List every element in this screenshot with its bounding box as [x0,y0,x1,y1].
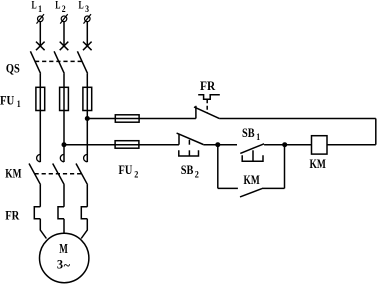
motor 3~ label [57,256,70,272]
SB1 NO contact blade [240,144,264,154]
FR heater element pole 3 [81,207,87,219]
SB2 label [181,163,200,180]
junction node left of SB1 [215,142,220,147]
motor M label [59,241,68,256]
QS blade pole 2 [54,51,64,73]
SB2 NC contact blade [177,133,204,144]
FR heater element pole 1 [34,207,40,219]
wire FU2 upper to FR contact [139,118,196,120]
svg-text:~: ~ [64,258,71,273]
SB1 plunger link [252,150,254,161]
KM main blade pole 2 [53,164,65,185]
svg-text:FR: FR [200,79,216,93]
wire FU2 lower to SB2 [139,144,179,146]
QS fixed contact cross pole 2 [60,42,69,51]
terminal symbol L3 [84,14,92,24]
wire SB1 to junction [264,144,285,146]
QS blade pole 3 [77,51,87,73]
wire aux branch left horizontal [218,187,238,189]
node tap to control bottom line on L2 [62,142,67,147]
svg-text:1: 1 [38,4,42,14]
wire L2 drop to QS [63,22,65,46]
svg-text:FU: FU [119,163,133,177]
KM linkage dashed line [35,173,82,175]
SB2 pushbutton bracket [179,150,199,156]
wire FU1 to KM pole 1 [39,111,41,163]
svg-text:1: 1 [17,99,21,109]
wire QS to FU1 pole 1 [39,74,41,88]
KM main contact arc pole 3 [84,154,88,161]
fuse FU2 upper [115,115,139,122]
KM coil label [310,157,327,171]
FR actuator dashed link [206,99,208,113]
wire FU1 to KM pole 3 [86,111,88,163]
svg-text:1: 1 [256,132,260,142]
wire heater to motor pole 1 [40,219,46,239]
node tap to control top line on L3 [85,116,90,121]
svg-text:2: 2 [62,4,66,14]
node L2 terminal label [55,0,66,14]
svg-text:SB: SB [181,163,194,177]
wire right rail vertical [375,119,377,145]
FR NC contact stub [195,106,197,119]
svg-text:FR: FR [5,209,20,223]
QS fixed contact cross pole 3 [83,42,92,51]
terminal symbol L2 [60,14,67,24]
FU2 label [119,163,139,180]
svg-text:L: L [32,0,37,11]
junction node right of SB1 [282,142,287,147]
wire heater to motor pole 3 [81,219,87,239]
QS blade pole 1 [30,51,40,73]
wire L3 drop to QS [86,22,88,46]
svg-text:QS: QS [6,61,20,76]
KM main blade pole 1 [29,164,41,185]
wire FR contact to right rail [219,118,376,120]
svg-text:KM: KM [310,157,327,171]
svg-text:FU: FU [0,94,14,108]
FU1 label [0,94,21,110]
SB2 plunger dashed link [188,140,190,156]
QS linkage dashed line [35,60,82,62]
svg-text:2: 2 [195,170,200,180]
FR actuator symbol [198,95,220,99]
svg-text:SB: SB [242,126,255,140]
KM main contact arc pole 1 [37,154,41,161]
coil KM [312,136,328,154]
FR NC contact blade [194,107,219,119]
node L3 terminal label [79,0,90,14]
KM label (main contacts) [5,167,21,181]
FR label (heaters) [5,209,20,223]
wire heater to motor pole 2 [63,219,65,234]
wire KM to FR heater pole 3 [86,185,88,207]
wire KM coil to right rail [327,144,376,146]
wire aux branch left drop [217,145,219,189]
FR heater element pole 2 [58,207,64,219]
terminal symbol L1 [37,14,45,24]
SB1 label [242,126,261,142]
QS fixed contact cross pole 1 [36,42,45,51]
wire QS to FU1 pole 2 [63,74,65,88]
KM label (auxiliary contact) [244,173,260,187]
fuse FU2 lower [115,141,139,149]
wire L1 drop to QS [39,22,41,46]
fuse FU1 pole 2 [60,87,69,110]
wire control bottom line left segment [64,144,115,146]
wire FU1 to KM pole 2 [63,111,65,163]
SB2 NC contact stub [178,134,180,145]
wire aux branch right rise [284,145,286,189]
node L1 terminal label [32,0,43,14]
KM auxiliary NO contact blade [240,189,262,197]
wire control top line left segment [87,118,115,120]
KM main contact arc pole 2 [60,154,64,161]
wire SB2 to junction [203,144,237,146]
fuse FU1 pole 1 [36,87,45,110]
wire QS to FU1 pole 3 [86,74,88,88]
wire KM to FR heater pole 2 [63,185,65,207]
wire junction to KM coil [285,144,312,146]
QS label [6,61,20,76]
svg-text:L: L [55,0,60,11]
wire KM to FR heater pole 1 [39,185,41,207]
KM main blade pole 3 [76,164,88,185]
svg-text:3: 3 [57,256,64,271]
svg-text:KM: KM [244,173,260,187]
fuse FU1 pole 3 [83,87,92,110]
SB1 pushbutton bracket [242,155,263,161]
motor M circle [39,233,88,282]
svg-text:2: 2 [134,170,139,180]
FR label (contact) [200,79,216,93]
svg-text:M: M [59,241,68,256]
svg-text:KM: KM [5,167,21,181]
wire aux branch right horizontal [262,187,285,189]
svg-text:3: 3 [85,4,89,14]
svg-text:L: L [79,0,84,11]
